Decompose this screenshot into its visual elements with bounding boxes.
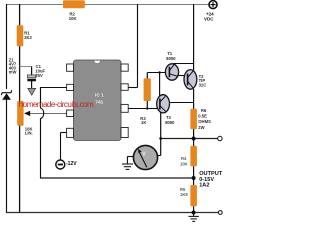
svg-text:2K2: 2K2 bbox=[24, 35, 32, 40]
svg-text:8050: 8050 bbox=[166, 56, 176, 61]
svg-text:1K8: 1K8 bbox=[180, 192, 188, 197]
svg-text:0.5E: 0.5E bbox=[198, 114, 207, 119]
svg-text:VDC: VDC bbox=[204, 17, 214, 22]
svg-text:LIN.: LIN. bbox=[25, 130, 33, 135]
svg-text:10K: 10K bbox=[180, 162, 188, 167]
svg-text:IC 1: IC 1 bbox=[95, 93, 104, 99]
svg-text:V: V bbox=[142, 152, 146, 158]
svg-text:homemade-circuits.com: homemade-circuits.com bbox=[19, 100, 94, 109]
svg-text:1A2: 1A2 bbox=[199, 183, 209, 189]
svg-text:25V: 25V bbox=[35, 73, 43, 78]
svg-text:741: 741 bbox=[95, 99, 103, 105]
svg-text:OHMS: OHMS bbox=[198, 119, 211, 124]
svg-text:R6: R6 bbox=[201, 108, 207, 113]
svg-text:-12V: -12V bbox=[66, 161, 77, 167]
svg-text:8050: 8050 bbox=[165, 120, 175, 125]
svg-text:mW: mW bbox=[9, 70, 17, 75]
svg-text:10K: 10K bbox=[69, 16, 77, 21]
svg-text:R4: R4 bbox=[181, 156, 187, 161]
svg-text:1K: 1K bbox=[141, 120, 146, 125]
svg-text:31C: 31C bbox=[199, 82, 207, 87]
svg-text:2W: 2W bbox=[198, 125, 204, 130]
